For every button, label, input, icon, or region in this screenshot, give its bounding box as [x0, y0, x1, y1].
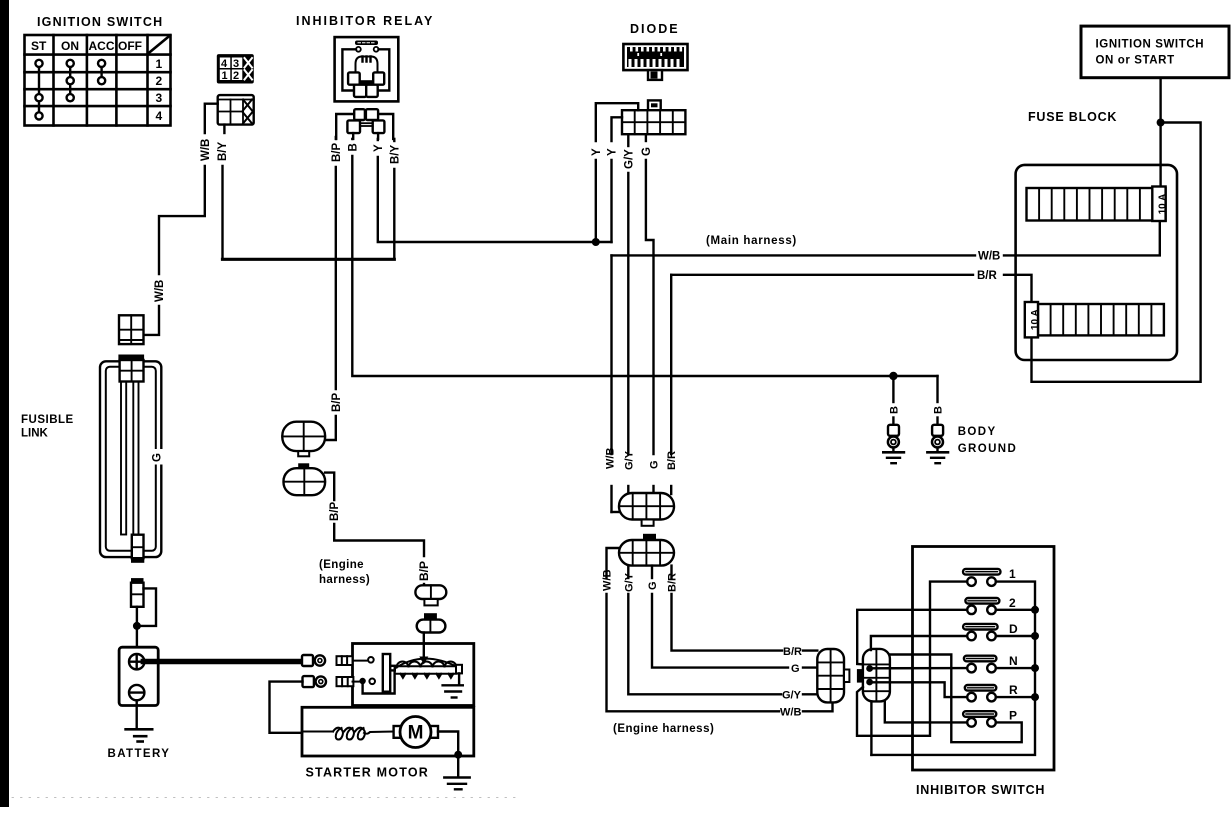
inhibitor switch left oval tab — [844, 670, 849, 683]
svg-text:N: N — [1009, 654, 1018, 668]
wire contactN-left to pin node 1 — [870, 667, 968, 670]
wire from ignition box to fuse — [1159, 78, 1161, 188]
fusible link bottom connector — [132, 535, 144, 559]
svg-text:G/Y: G/Y — [623, 149, 635, 169]
body ground terminal 2 — [927, 376, 948, 463]
inhibitor relay coil arch — [356, 57, 378, 75]
ignition switch row numbers — [156, 57, 163, 123]
fuse row upper — [1027, 188, 1166, 221]
inhibitor switch contacts R — [967, 693, 996, 702]
svg-text:DIODE: DIODE — [630, 22, 680, 36]
svg-text:10 A: 10 A — [1030, 309, 1041, 330]
svg-text:INHIBITOR RELAY: INHIBITOR RELAY — [296, 14, 434, 28]
wire G/Y from diode connector — [627, 134, 629, 493]
svg-text:B/P: B/P — [331, 143, 343, 163]
svg-text:4: 4 — [221, 58, 228, 70]
battery ground symbol — [126, 729, 153, 741]
fusible link bottom black band — [131, 558, 144, 563]
fuse row lower — [1038, 304, 1164, 335]
svg-text:G: G — [641, 147, 653, 156]
svg-text:STARTER MOTOR: STARTER MOTOR — [306, 766, 429, 780]
inhibitor switch contact bar N — [964, 656, 997, 662]
solenoid internal wire — [363, 672, 395, 694]
svg-text:G: G — [647, 581, 659, 590]
wire battery feed loop — [141, 588, 156, 626]
svg-text:4: 4 — [156, 109, 163, 123]
svg-text:ACC: ACC — [89, 39, 115, 53]
ignition switch ST column contacts — [35, 60, 42, 120]
svg-text:FUSIBLE: FUSIBLE — [21, 414, 74, 426]
diode block — [623, 44, 687, 70]
B/P connector 2 (oval) — [284, 468, 326, 495]
wire contactD-left to connector — [871, 636, 967, 650]
B/P connector 2 black tab — [298, 463, 309, 468]
ignition switch on/start box — [1081, 26, 1229, 78]
solenoid terminal stub upper — [337, 656, 353, 665]
svg-text:B/R: B/R — [783, 646, 802, 658]
solenoid internal contact lower — [353, 679, 376, 685]
wire B/P engine harness — [325, 473, 424, 586]
svg-text:B/P: B/P — [329, 502, 341, 522]
inhibitor switch contact bar D — [963, 624, 998, 630]
svg-text:BATTERY: BATTERY — [108, 748, 171, 760]
engine harness connector black tab — [643, 534, 656, 540]
wire contactP-right loop to connector — [890, 655, 1022, 743]
svg-text:Y: Y — [607, 148, 619, 156]
fusible link outer case — [100, 361, 161, 557]
svg-text:3: 3 — [233, 58, 239, 70]
fuse 10A lower — [1025, 302, 1041, 337]
engine harness connector (lower oval) — [619, 540, 674, 566]
ignition switch table header text — [31, 39, 142, 53]
wire motor to ground — [438, 732, 458, 778]
wire B/P from relay — [325, 137, 336, 440]
ignition switch ACC column contacts — [98, 60, 105, 84]
svg-text:B/P: B/P — [331, 393, 343, 413]
wire contactP-left to connector bottom — [885, 701, 967, 722]
starter connector upper tab — [424, 599, 437, 605]
starter connector lower black tab — [424, 613, 437, 619]
svg-text:(Engine: (Engine — [319, 559, 364, 571]
svg-text:G: G — [791, 663, 800, 675]
svg-text:FUSE BLOCK: FUSE BLOCK — [1028, 110, 1117, 124]
svg-text:B/R: B/R — [667, 573, 679, 592]
starter ground symbol — [444, 778, 469, 790]
starter connector lower (oval) — [417, 620, 446, 633]
svg-text:W/B: W/B — [200, 139, 212, 161]
svg-text:10 A: 10 A — [1158, 194, 1169, 215]
solenoid internal contact upper — [353, 657, 374, 663]
battery positive terminal — [129, 654, 144, 669]
B/P connector 1 tab — [298, 451, 309, 456]
fusible link top inner connector — [120, 360, 144, 382]
fuse 10A upper — [1152, 187, 1168, 222]
solenoid terminal stub lower — [337, 677, 354, 686]
starter terminal upper (ring) — [302, 655, 325, 666]
main harness connector tab — [642, 520, 654, 526]
diode block tab — [648, 70, 662, 80]
svg-text:ON or START: ON or START — [1096, 55, 1175, 67]
wire Y (first) from diode connector — [596, 103, 638, 242]
svg-text:1: 1 — [156, 57, 163, 71]
connector pin node 1 — [866, 665, 873, 672]
inhibitor relay resistor bar — [355, 41, 378, 46]
wire bus stub row R — [996, 696, 1035, 698]
svg-text:G: G — [152, 453, 164, 462]
inhibitor switch contacts N — [967, 664, 996, 673]
fusible link top connector — [119, 315, 144, 344]
battery box — [119, 647, 158, 705]
solenoid junction node — [359, 678, 365, 684]
wire contact1-left loop — [857, 582, 967, 736]
inhibitor relay box — [335, 37, 399, 101]
wire bus bottom to connector — [870, 701, 872, 755]
wire contact2-left to connector — [857, 610, 967, 665]
junction node row R — [1031, 693, 1039, 701]
battery feed connector — [131, 583, 144, 607]
B/P connector 1 (oval) — [282, 422, 325, 451]
svg-text:IGNITION SWITCH: IGNITION SWITCH — [37, 15, 163, 29]
svg-text:W/B: W/B — [780, 707, 801, 719]
svg-text:(Engine harness): (Engine harness) — [613, 723, 714, 735]
inhibitor switch contact bar P — [963, 711, 996, 717]
inhibitor switch contact bar R — [965, 685, 997, 691]
inhibitor switch contacts D — [967, 632, 996, 641]
svg-text:(Main harness): (Main harness) — [706, 235, 797, 247]
wire W/B into upper oval — [612, 511, 620, 513]
wire Y (second) from diode connector — [612, 117, 623, 242]
main harness connector (upper oval) — [619, 493, 674, 520]
starter solenoid box — [353, 644, 474, 706]
motor M circle — [394, 717, 438, 748]
wire B/R main harness run — [671, 275, 1031, 494]
svg-text:Y: Y — [373, 144, 385, 152]
svg-text:R: R — [1009, 683, 1018, 697]
svg-text:B/Y: B/Y — [389, 145, 401, 165]
wire contactR-left to pin node 2 — [870, 682, 968, 697]
inhibitor switch contact bar 1 — [963, 569, 1001, 575]
battery cable (thick) — [143, 659, 302, 665]
junction node row 2 — [1031, 606, 1039, 614]
wire branch to second fuse — [1032, 123, 1201, 382]
svg-text:OFF: OFF — [118, 39, 142, 53]
svg-text:3: 3 — [156, 91, 163, 105]
svg-text:ON: ON — [61, 39, 79, 53]
junction node (motor ground) — [454, 751, 462, 759]
inhibitor relay contact squares — [348, 72, 384, 96]
inhibitor switch harness connector (right oval) — [863, 649, 890, 702]
left page border bar — [0, 0, 9, 807]
svg-text:BODY: BODY — [958, 426, 997, 438]
svg-text:G: G — [649, 460, 661, 469]
svg-text:W/B: W/B — [602, 570, 614, 591]
label G (fusible link) — [147, 449, 164, 465]
fuse block outline — [1016, 165, 1177, 360]
body ground junction node — [889, 372, 897, 380]
solenoid ground — [443, 673, 463, 697]
svg-text:B/R: B/R — [977, 270, 998, 282]
svg-text:W/B: W/B — [605, 448, 617, 469]
inhibitor relay contact circles — [356, 47, 379, 52]
inhibitor switch contacts 1 — [967, 577, 996, 586]
svg-text:M: M — [408, 723, 424, 744]
svg-text:ST: ST — [31, 39, 47, 53]
svg-text:B: B — [888, 406, 900, 414]
junction node (fuse feed) — [1157, 119, 1165, 127]
starter motor housing box — [302, 707, 474, 756]
wire bus stub row 2 — [996, 609, 1035, 611]
svg-text:B: B — [347, 143, 359, 151]
junction node (Y wires) — [592, 238, 600, 246]
battery feed connector black band — [131, 578, 144, 583]
inhibitor switch contacts P — [967, 718, 996, 727]
svg-text:B: B — [933, 406, 945, 414]
svg-text:D: D — [1009, 622, 1018, 636]
diode harness connector tab — [648, 100, 661, 110]
wire G from lower oval (engine) — [652, 566, 817, 668]
inhibitor relay right internal wire — [379, 49, 390, 90]
solenoid coil — [395, 659, 458, 678]
svg-text:G/Y: G/Y — [623, 450, 635, 470]
fusible link top black band — [118, 355, 144, 361]
svg-text:GROUND: GROUND — [958, 443, 1018, 455]
wire Y from relay to diode junction — [378, 139, 596, 242]
inhibitor switch contact bar 2 — [965, 598, 999, 604]
svg-text:B/P: B/P — [417, 561, 431, 581]
wire connector to battery — [136, 607, 138, 647]
wire right bus from contact 1 — [871, 582, 1035, 755]
solenoid plunger — [383, 654, 395, 692]
ignition switch connector (numbered 4 3 / 1 2) — [217, 54, 254, 83]
battery negative terminal — [129, 685, 144, 700]
inhibitor switch box — [913, 547, 1055, 771]
diode harness connector — [622, 110, 685, 134]
wire B/Y from ignition switch connector — [223, 125, 395, 260]
ignition switch harness connector — [218, 95, 254, 125]
svg-text:1: 1 — [222, 70, 228, 82]
svg-text:1: 1 — [1009, 567, 1016, 581]
svg-text:P: P — [1009, 709, 1017, 723]
wire W/B from lower oval (engine) — [607, 548, 833, 711]
body ground terminal 1 — [883, 376, 904, 463]
svg-text:B/Y: B/Y — [217, 142, 229, 162]
ignition switch table frame — [25, 35, 171, 126]
wire bus stub row N — [996, 667, 1035, 669]
solenoid wire arrowhead — [419, 657, 428, 665]
svg-text:harness): harness) — [319, 574, 370, 586]
junction node row D — [1031, 632, 1039, 640]
svg-text:G/Y: G/Y — [623, 572, 635, 592]
wire connector to solenoid — [423, 633, 425, 657]
ignition switch ON column contacts — [67, 60, 74, 101]
wire W/B main harness run — [612, 221, 1160, 512]
svg-text:Y: Y — [591, 148, 603, 156]
junction node (battery top) — [133, 622, 141, 630]
svg-text:LINK: LINK — [21, 428, 49, 440]
wire lower terminal loop to motor housing — [270, 682, 303, 733]
wire B/R from lower oval (engine) — [672, 566, 818, 651]
wire G/Y from lower oval (engine) — [628, 566, 817, 695]
junction node row N — [1031, 664, 1039, 672]
inhibitor switch contacts 2 — [967, 606, 996, 615]
motor field coil — [302, 728, 394, 740]
fusible link element wires — [121, 382, 139, 535]
starter terminal lower (ring) — [303, 676, 326, 687]
svg-text:G/Y: G/Y — [782, 690, 802, 702]
wire bus stub row D — [996, 635, 1035, 637]
svg-text:2: 2 — [233, 70, 239, 82]
svg-text:W/B: W/B — [154, 280, 166, 302]
wire B from relay to body ground line — [352, 139, 937, 376]
svg-text:IGNITION SWITCH: IGNITION SWITCH — [1096, 39, 1205, 51]
svg-text:2: 2 — [156, 74, 163, 88]
inhibitor switch harness connector (left oval) — [817, 649, 844, 702]
inhibitor relay left internal wire — [342, 49, 356, 90]
wire G from diode connector — [646, 134, 654, 493]
svg-text:INHIBITOR SWITCH: INHIBITOR SWITCH — [916, 783, 1045, 797]
starter connector upper (oval) — [415, 585, 446, 599]
scan artifact dotted line — [12, 797, 520, 799]
inhibitor switch connector black tab — [857, 669, 864, 683]
wire junction to second Y — [596, 241, 612, 243]
connector pin node 2 — [866, 679, 873, 686]
svg-text:W/B: W/B — [978, 251, 1000, 263]
svg-text:2: 2 — [1009, 596, 1016, 610]
battery ground wire — [135, 700, 137, 729]
fusible link inner case — [106, 367, 156, 551]
wire B/Y from relay down to B/Y horizontal — [393, 139, 395, 259]
wire W/B from ignition switch connector — [144, 104, 218, 335]
inhibitor relay connector — [336, 109, 393, 139]
solenoid coil terminal square — [456, 665, 462, 674]
